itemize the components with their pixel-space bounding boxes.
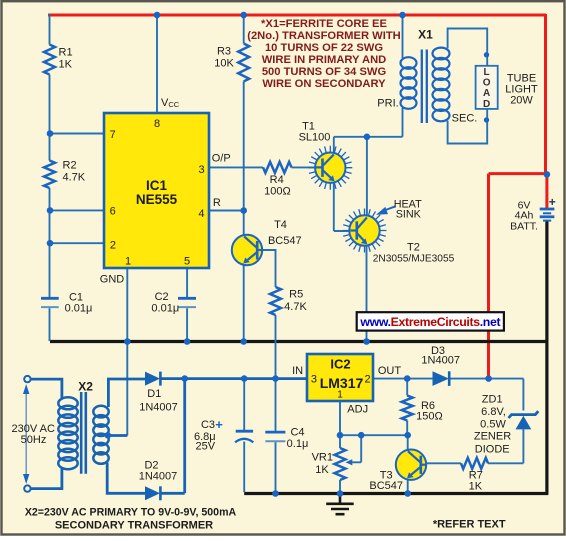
svg-text:R1: R1 (59, 47, 73, 59)
svg-text:1K: 1K (469, 481, 483, 493)
svg-text:L: L (484, 67, 490, 78)
svg-text:C4: C4 (290, 427, 304, 439)
svg-text:1K: 1K (59, 59, 73, 71)
svg-text:+: + (215, 417, 223, 432)
svg-text:5: 5 (184, 256, 190, 268)
svg-text:0.5W: 0.5W (480, 419, 506, 431)
svg-text:1N4007: 1N4007 (421, 355, 460, 367)
svg-text:1K: 1K (315, 464, 329, 476)
svg-text:WIRE IN PRIMARY AND: WIRE IN PRIMARY AND (262, 54, 387, 66)
svg-text:25V: 25V (196, 441, 216, 453)
svg-text:4: 4 (198, 208, 204, 220)
svg-text:D: D (483, 99, 490, 110)
svg-text:VR1: VR1 (312, 451, 333, 463)
svg-text:2: 2 (110, 239, 116, 251)
svg-text:R2: R2 (63, 160, 77, 172)
svg-text:150Ω: 150Ω (416, 411, 443, 423)
svg-text:T4: T4 (274, 219, 287, 231)
svg-text:www.ExtremeCircuits.net: www.ExtremeCircuits.net (359, 315, 500, 329)
svg-text:NE555: NE555 (136, 192, 178, 207)
svg-text:PRI.: PRI. (377, 98, 398, 110)
svg-text:8: 8 (154, 118, 160, 130)
svg-text:ZENER: ZENER (474, 431, 511, 443)
svg-text:SL100: SL100 (299, 132, 331, 144)
svg-text:X2: X2 (78, 380, 93, 394)
svg-text:OUT: OUT (378, 365, 402, 377)
svg-text:A: A (483, 88, 490, 99)
svg-text:SEC.: SEC. (452, 113, 478, 125)
svg-text:(2No.) TRANSFORMER WITH: (2No.) TRANSFORMER WITH (247, 30, 401, 42)
svg-text:R: R (213, 197, 221, 209)
svg-text:50Hz: 50Hz (21, 434, 47, 446)
svg-text:DIODE: DIODE (475, 443, 510, 455)
svg-text:0.01μ: 0.01μ (65, 303, 93, 315)
svg-text:WIRE ON SECONDARY: WIRE ON SECONDARY (262, 78, 386, 90)
svg-text:100Ω: 100Ω (264, 186, 291, 198)
svg-text:C2: C2 (155, 291, 169, 303)
svg-text:GND: GND (100, 274, 125, 286)
svg-text:IC2: IC2 (330, 357, 350, 372)
svg-text:O: O (483, 78, 491, 89)
svg-text:+: + (549, 195, 556, 209)
svg-text:BC547: BC547 (268, 235, 302, 247)
svg-text:2: 2 (365, 374, 371, 386)
svg-text:3: 3 (311, 374, 317, 386)
svg-text:X2=230V AC PRIMARY TO 9V-0-9V,: X2=230V AC PRIMARY TO 9V-0-9V, 500mA (25, 507, 237, 519)
svg-text:ADJ: ADJ (347, 404, 368, 416)
svg-text:D1: D1 (147, 388, 161, 400)
svg-text:500 TURNS OF 34 SWG: 500 TURNS OF 34 SWG (262, 66, 387, 78)
svg-text:10K: 10K (214, 58, 234, 70)
svg-text:7: 7 (110, 129, 116, 141)
svg-text:6.8V,: 6.8V, (481, 406, 506, 418)
svg-text:C3: C3 (201, 419, 215, 431)
svg-text:4.7K: 4.7K (284, 301, 307, 313)
svg-text:10 TURNS OF 22 SWG: 10 TURNS OF 22 SWG (265, 42, 383, 54)
svg-text:0.1μ: 0.1μ (287, 438, 309, 450)
svg-text:ZD1: ZD1 (482, 394, 503, 406)
svg-text:4.7K: 4.7K (63, 172, 86, 184)
svg-text:R7: R7 (469, 469, 483, 481)
svg-text:1: 1 (125, 256, 131, 268)
svg-text:1N4007: 1N4007 (139, 402, 178, 414)
svg-text:IN: IN (292, 365, 303, 377)
svg-text:2N3055/MJE3055: 2N3055/MJE3055 (373, 253, 455, 264)
svg-text:0.01μ: 0.01μ (151, 303, 179, 315)
svg-text:BC547: BC547 (369, 480, 403, 492)
svg-text:*X1=FERRITE CORE EE: *X1=FERRITE CORE EE (261, 18, 387, 30)
svg-text:SECONDARY TRANSFORMER: SECONDARY TRANSFORMER (55, 519, 213, 531)
svg-text:SINK: SINK (396, 208, 422, 220)
svg-text:R3: R3 (217, 46, 231, 58)
svg-text:1: 1 (337, 390, 343, 401)
svg-text:O/P: O/P (212, 153, 231, 165)
svg-text:20W: 20W (510, 95, 533, 107)
svg-text:IC1: IC1 (146, 178, 168, 193)
svg-text:T2: T2 (407, 241, 420, 253)
svg-text:X1: X1 (418, 28, 433, 42)
svg-text:1N4007: 1N4007 (139, 471, 178, 483)
svg-text:BATT.: BATT. (510, 221, 538, 233)
svg-text:R4: R4 (270, 174, 284, 186)
svg-text:6: 6 (110, 205, 116, 217)
svg-text:3: 3 (198, 164, 204, 176)
svg-text:*REFER TEXT: *REFER TEXT (433, 519, 506, 531)
svg-text:R5: R5 (289, 289, 303, 301)
